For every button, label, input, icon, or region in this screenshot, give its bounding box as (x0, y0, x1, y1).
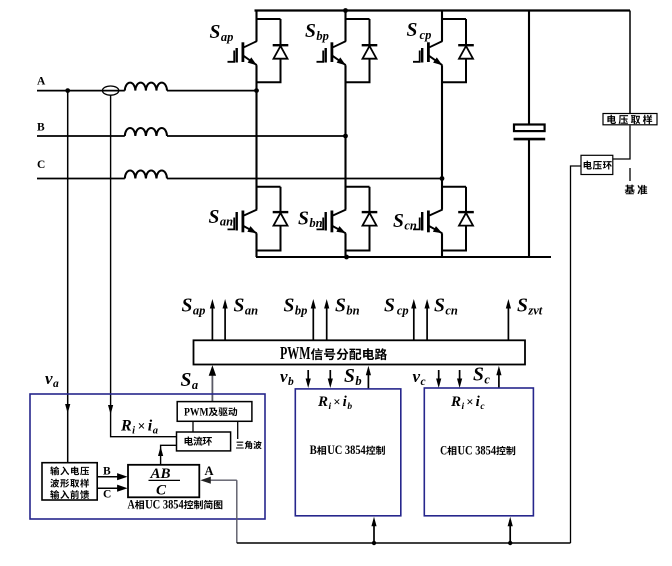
wire: bottom DC bus (-) (256, 256, 551, 258)
svg-text:A: A (205, 464, 214, 478)
svg-text:ap: ap (221, 30, 234, 44)
wire: Sa gate drive line (gray) up into PWM box (211, 370, 213, 401)
wire: leg b drop to bottom bus (344, 251, 346, 258)
block: PWM signal distribution PWM信号分配电路 (194, 340, 526, 364)
node: feedback tap to B block (372, 541, 376, 545)
svg-text:UC 3854: UC 3854 (145, 497, 184, 511)
svg-text:i: i (462, 402, 465, 412)
IGBT Scp with freewheel diode (441, 11, 443, 42)
wire: phase A line (right of inductor) (167, 90, 257, 92)
svg-text:bn: bn (309, 216, 322, 230)
wire: phase A line (left of inductor) (37, 90, 125, 92)
wire: leg c drop to bottom bus (441, 251, 443, 258)
arrows: vc inputs into C block (438, 370, 440, 385)
svg-text:cn: cn (404, 219, 417, 233)
node: feedback tap to C block (508, 541, 512, 545)
svg-text:cp: cp (397, 303, 409, 317)
arrow: feedback into C block (509, 520, 511, 543)
svg-text:i: i (132, 425, 135, 436)
IGBT Sbn with freewheel diode (344, 187, 346, 210)
arrow: Sb up into PWM box (367, 369, 369, 389)
arrow: B input to multiplier (97, 476, 123, 478)
svg-text:B: B (103, 466, 111, 478)
svg-text:A: A (37, 75, 46, 87)
svg-text:zvt: zvt (527, 303, 542, 317)
svg-text:UC 3854: UC 3854 (458, 443, 497, 457)
arrow: A input (feedback from voltage loop) (204, 479, 237, 481)
current transformer CT on phase A (102, 86, 118, 95)
svg-text:R: R (120, 418, 132, 435)
arrow: Sc up into PWM box (498, 369, 500, 389)
node: bottom bus / phase-b leg junction (344, 255, 349, 260)
node: phase A tap junction (65, 88, 70, 93)
svg-text:×: × (466, 395, 473, 409)
svg-text:S: S (407, 20, 418, 41)
wire: top DC bus (+) (255, 9, 631, 11)
svg-text:S: S (335, 296, 346, 317)
wire: voltage-loop feedback bottom run (237, 542, 571, 544)
svg-text:R: R (317, 394, 328, 410)
svg-text:v: v (280, 367, 288, 386)
node: phase a / bridge junction (254, 88, 259, 93)
svg-text:C: C (156, 483, 167, 499)
svg-text:b: b (355, 374, 361, 388)
IGBT Sap with freewheel diode (255, 11, 257, 42)
wire: phase C line (left of inductor) (37, 178, 125, 180)
IGBT Scn with freewheel diode (441, 187, 443, 210)
svg-text:PWM: PWM (184, 404, 209, 418)
wire: leg a mid vertical (255, 91, 257, 187)
svg-text:an: an (245, 303, 258, 317)
arrows: gate signals out of PWM box (211, 303, 213, 340)
wire: voltage sampling to voltage loop (613, 126, 630, 160)
block: input voltage sampling 输入电压/波形取样/输入前馈 (42, 463, 97, 500)
svg-text:bn: bn (346, 303, 359, 317)
wire: PWM-drive to current-loop connector (192, 421, 194, 432)
IGBT San with freewheel diode (255, 187, 257, 210)
block: C-phase UC3854 controller (424, 388, 533, 516)
svg-text:×: × (333, 395, 340, 409)
wire: leg c mid vertical (441, 179, 443, 187)
svg-text:S: S (434, 296, 445, 317)
svg-text:C: C (37, 159, 45, 171)
svg-text:S: S (234, 296, 245, 317)
svg-text:b: b (347, 402, 352, 412)
svg-text:v: v (413, 367, 421, 386)
block: voltage loop box 电压环 (581, 155, 613, 174)
svg-text:AB: AB (149, 466, 170, 482)
svg-text:S: S (210, 22, 221, 43)
inductor LA (125, 83, 167, 91)
block: A-phase controller outline (30, 394, 265, 519)
svg-text:S: S (393, 211, 404, 232)
node: phase b / bridge junction (343, 134, 348, 139)
svg-text:ap: ap (193, 303, 206, 317)
svg-text:PWM: PWM (280, 343, 311, 363)
svg-text:S: S (181, 370, 192, 391)
label: triangle wave 三角波 (236, 441, 262, 449)
wire: leg a drop to bottom bus (255, 251, 257, 258)
wire: ia sense branch from CT with arrow (111, 95, 177, 437)
svg-text:S: S (209, 207, 220, 228)
svg-text:S: S (284, 296, 295, 317)
block: voltage sampling box 电压取样 (603, 114, 657, 125)
wire: feedback vertical (gray) (236, 480, 238, 543)
arrows: vb inputs into B block (307, 370, 309, 385)
svg-text:A: A (127, 497, 134, 511)
wire: multiplier output up into current loop (161, 445, 177, 465)
capacitor C (dc link) (528, 11, 530, 125)
svg-text:C: C (103, 489, 111, 501)
svg-text:×: × (138, 419, 146, 434)
block: PWM and gate drive PWM及驱动 (177, 402, 252, 422)
svg-text:a: a (53, 378, 59, 390)
arrow: feedback into B block (373, 520, 375, 543)
wire: reference stub (629, 168, 631, 181)
wire: phase B line (right of inductor) (167, 135, 346, 137)
svg-text:c: c (484, 372, 490, 386)
svg-text:R: R (450, 394, 461, 410)
svg-text:c: c (421, 376, 426, 388)
wire: triangle wave stub (237, 421, 239, 439)
svg-text:S: S (473, 365, 484, 386)
block: multiplier AB/C (128, 465, 199, 498)
block: current loop 电流环 (177, 432, 231, 451)
svg-text:S: S (344, 366, 355, 387)
wire: va sense branch with arrow (67, 91, 69, 463)
svg-text:v: v (45, 369, 53, 388)
svg-text:bp: bp (295, 303, 308, 317)
svg-text:b: b (288, 376, 294, 388)
svg-text:S: S (384, 296, 395, 317)
svg-text:i: i (329, 402, 332, 412)
svg-text:a: a (153, 425, 158, 436)
svg-text:cp: cp (420, 28, 432, 42)
wire: phase B line (left of inductor) (37, 135, 125, 137)
svg-text:S: S (182, 296, 193, 317)
IGBT Sbp with freewheel diode (344, 11, 346, 42)
svg-text:cn: cn (445, 303, 458, 317)
svg-text:a: a (192, 378, 198, 392)
node: phase c / bridge junction (440, 176, 445, 181)
block: B-phase UC3854 controller (295, 389, 401, 516)
arrow: C input to multiplier (97, 487, 123, 489)
svg-text:UC 3854: UC 3854 (327, 443, 366, 457)
svg-text:bp: bp (316, 29, 329, 43)
svg-text:B: B (310, 443, 317, 457)
svg-text:S: S (305, 21, 316, 42)
label: reference 基准 (625, 185, 648, 195)
svg-text:S: S (298, 208, 309, 229)
inductor LB (125, 128, 167, 136)
wire: right drop from bus to voltage-sampling box (629, 11, 631, 114)
node: top bus / phase-b leg junction (343, 8, 348, 13)
wire: leg b mid vertical (344, 136, 346, 187)
wire: voltage loop output down right side (571, 166, 582, 543)
wire: phase C line (right of inductor) (167, 178, 442, 180)
svg-text:C: C (440, 443, 447, 457)
svg-text:an: an (220, 215, 233, 229)
svg-text:B: B (37, 122, 45, 134)
svg-text:S: S (517, 296, 528, 317)
inductor LC (125, 171, 167, 179)
